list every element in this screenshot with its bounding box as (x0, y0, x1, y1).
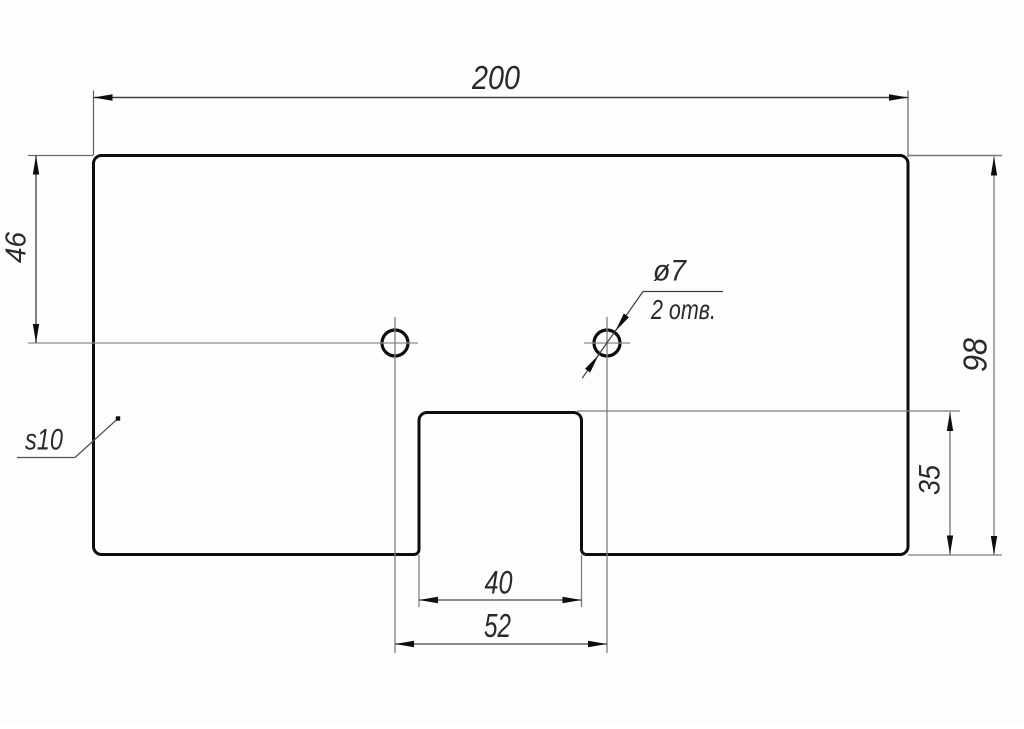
thickness label s10 text (25, 424, 63, 457)
dimension 200 line with arrows (94, 94, 909, 100)
hole callout text ø7 (653, 255, 687, 288)
dimension 98 line with arrows (991, 157, 997, 556)
dimension 46 text (1, 231, 33, 263)
hole 1 vertical centerline / 52 extension (394, 317, 396, 653)
svg-text:35: 35 (914, 465, 947, 495)
svg-text:2 отв.: 2 отв. (650, 294, 716, 325)
hole 1 horizontal centerline / 46 extension (28, 342, 418, 344)
dimension 200 extension lines (94, 91, 909, 158)
dimension 98 extension lines (908, 156, 1002, 556)
svg-text:s10: s10 (25, 424, 63, 457)
hole 2 vertical centerline / 52 extension (606, 317, 608, 653)
svg-text:200: 200 (471, 59, 520, 96)
hole 2 horizontal centerline (584, 342, 630, 344)
dimension 40 text (485, 565, 513, 601)
plate outline (94, 156, 909, 555)
svg-text:ø7: ø7 (653, 255, 687, 288)
dimension 35 text (914, 465, 947, 495)
hole callout text 2 otv. (650, 294, 716, 325)
hole callout shelf (643, 291, 723, 293)
dimension 46 extension line (top) (28, 155, 94, 157)
thickness label s10 leader (17, 416, 120, 457)
hole 2 (ø7) (594, 330, 620, 356)
dimension 40 extension lines (419, 555, 582, 607)
dimension 35 line with arrows (947, 412, 953, 555)
svg-text:52: 52 (484, 607, 511, 644)
hole callout leader line (582, 292, 643, 379)
dimension 52 line with arrows (395, 641, 607, 647)
svg-text:46: 46 (1, 231, 33, 263)
dimension 200 text (471, 59, 520, 96)
dimension 35 extension line (notch top) (577, 410, 960, 412)
svg-text:98: 98 (957, 337, 994, 372)
dimension 40 line with arrows (419, 597, 582, 603)
dimension 52 text (484, 607, 511, 644)
dimension 98 text (957, 337, 994, 372)
hole 1 (ø7) (382, 330, 408, 356)
dimension 46 line with arrows (33, 156, 39, 344)
svg-text:40: 40 (485, 565, 513, 601)
